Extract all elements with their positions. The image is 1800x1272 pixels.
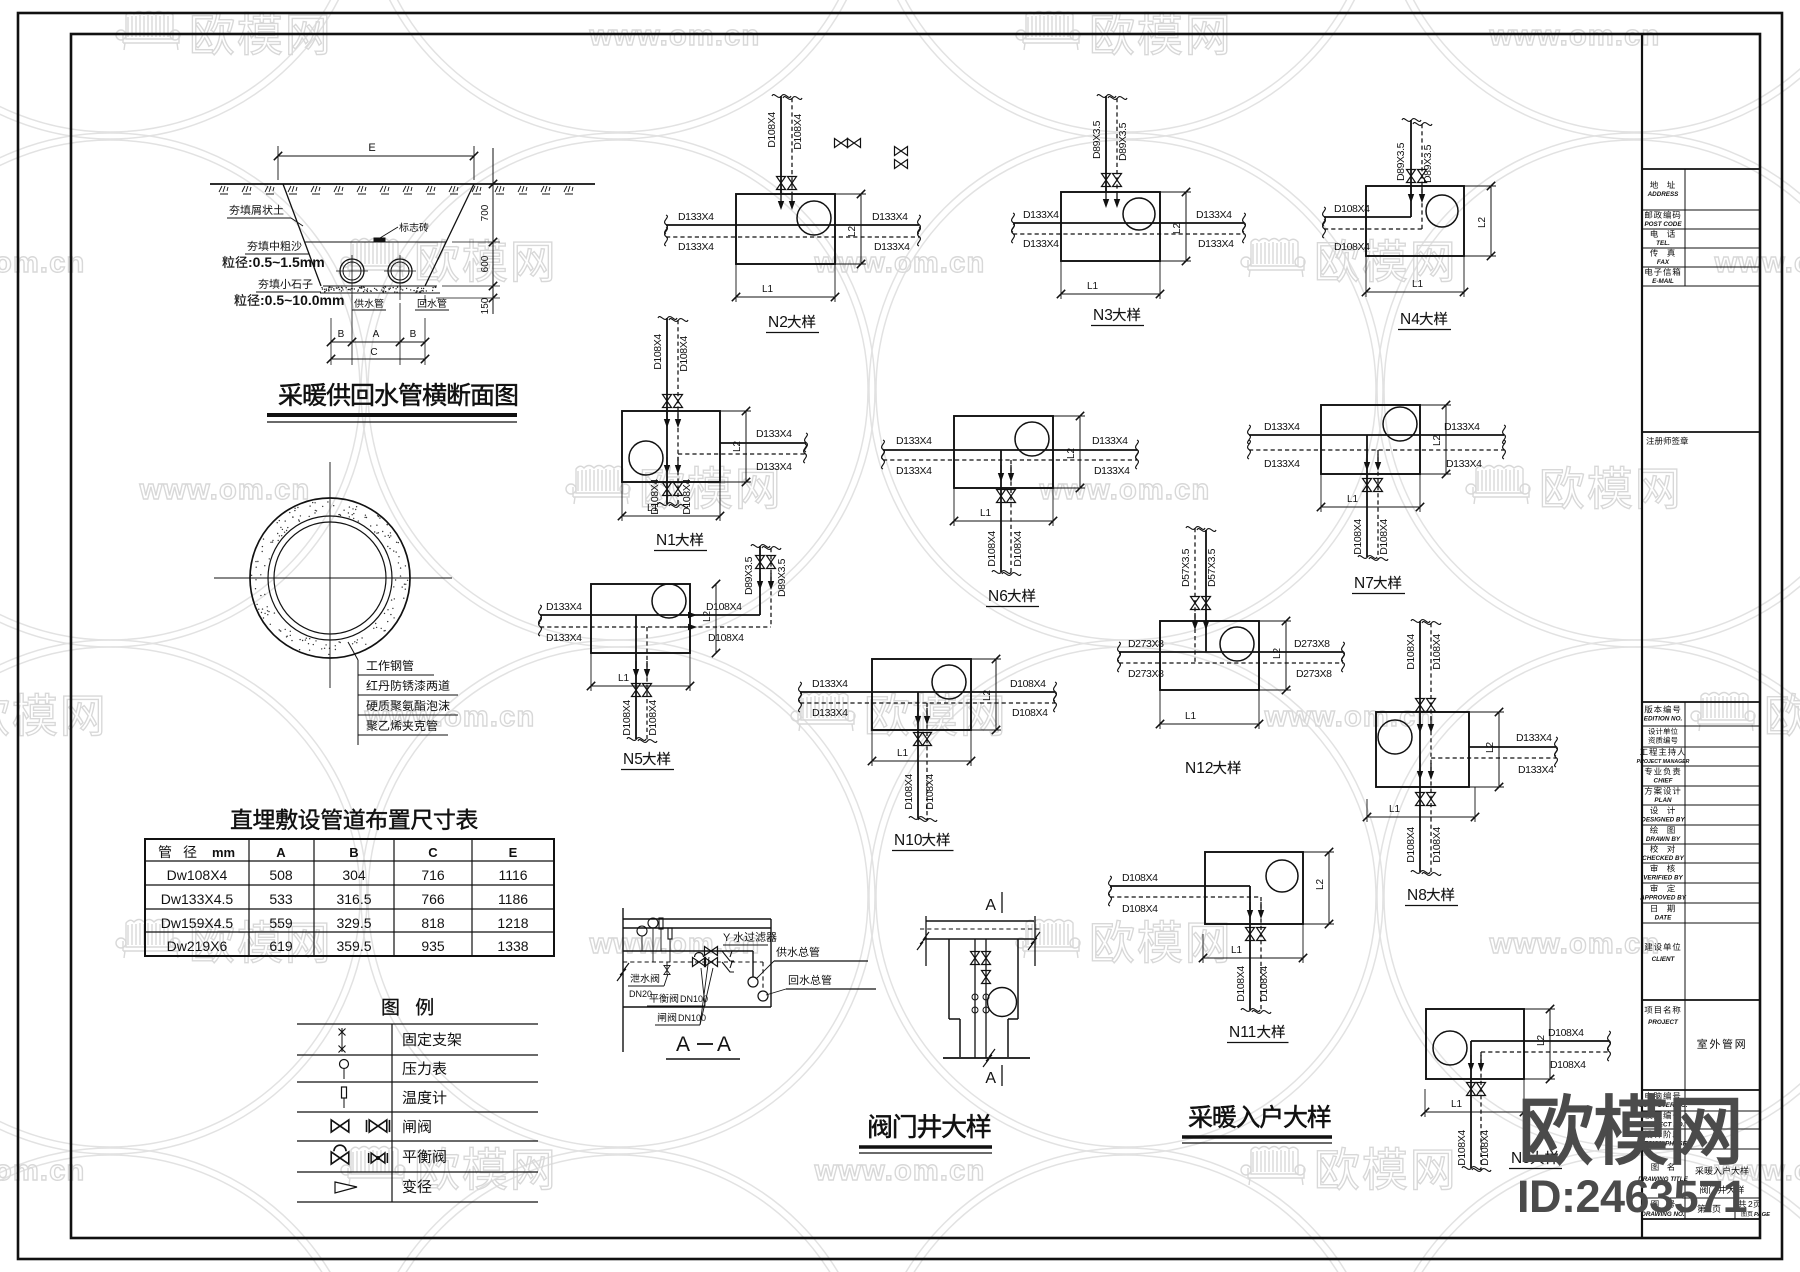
svg-text:www.om.cn: www.om.cn <box>589 928 761 960</box>
N3 return main D133X4 <box>1013 233 1244 235</box>
N8 manhole <box>1378 720 1412 754</box>
N4 valve well <box>1366 186 1464 256</box>
svg-text:POST CODE: POST CODE <box>1644 221 1682 228</box>
svg-text:www.om.cn: www.om.cn <box>589 20 761 52</box>
trench soil label <box>229 205 283 215</box>
svg-text:N10: N10 <box>894 832 923 849</box>
svg-text:818: 818 <box>421 915 445 931</box>
svg-text:N7: N7 <box>1354 575 1374 592</box>
N6 dimension L2 <box>1053 415 1085 417</box>
svg-text:E-MAIL: E-MAIL <box>1652 278 1674 285</box>
svg-text:D273X8: D273X8 <box>1296 668 1332 680</box>
svg-text:600: 600 <box>480 255 491 272</box>
N7 dimension L1 <box>1320 474 1322 512</box>
svg-text:D108X4: D108X4 <box>1431 634 1443 670</box>
N7 dimension L2 <box>1420 404 1451 406</box>
svg-text:N12: N12 <box>1185 760 1213 777</box>
drawing title values <box>1695 1166 1748 1174</box>
N9 dimension L2 <box>1524 1008 1555 1010</box>
legend title <box>383 998 433 1015</box>
AA return pipe <box>623 961 763 963</box>
svg-text:N6: N6 <box>988 588 1008 605</box>
svg-text:L2: L2 <box>702 610 713 622</box>
trench right dimension chain <box>492 148 494 314</box>
svg-text:1338: 1338 <box>497 938 528 954</box>
svg-text:www.om.cn: www.om.cn <box>1489 928 1661 960</box>
N3 flow arrows <box>1103 191 1109 208</box>
N6 dimension L1 <box>953 488 955 526</box>
svg-text:D133X4: D133X4 <box>678 241 714 253</box>
N2 branch supply pipe <box>780 96 782 194</box>
N6 supply main D133X4 <box>883 449 1137 451</box>
AA pressure gauges <box>637 926 647 936</box>
svg-text:D133X4: D133X4 <box>872 211 908 223</box>
trench bottom dimensions BAB <box>330 318 332 365</box>
N2 supply main D133X4 <box>666 224 919 226</box>
svg-text:L1: L1 <box>762 284 774 295</box>
svg-text:www.om.cn: www.om.cn <box>1489 20 1661 52</box>
svg-text:935: 935 <box>421 938 445 954</box>
N8 valve well <box>1376 712 1469 787</box>
N1 valve well <box>622 411 720 482</box>
svg-text:DN20: DN20 <box>629 989 652 999</box>
svg-text:PAGE: PAGE <box>1754 1212 1771 1218</box>
N12 branch supply up <box>1205 530 1207 652</box>
svg-text:D108X4: D108X4 <box>1012 531 1024 567</box>
svg-text:Dw159X4.5: Dw159X4.5 <box>161 915 234 931</box>
N7 branch return pipe down <box>1377 450 1379 559</box>
svg-text:L1: L1 <box>1347 494 1359 505</box>
svg-text:D133X4: D133X4 <box>1264 421 1300 433</box>
svg-text:A: A <box>985 1070 996 1087</box>
svg-text:D108X4: D108X4 <box>1334 241 1370 253</box>
N1 flow arrows bottom <box>664 457 670 474</box>
N8 dimension L1 <box>1366 799 1368 822</box>
svg-text:DESIGNED BY: DESIGNED BY <box>1641 817 1685 824</box>
svg-text:L1: L1 <box>980 508 992 519</box>
N3 branch supply pipe <box>1105 96 1107 192</box>
well plan valves <box>971 952 980 965</box>
svg-text:L1: L1 <box>1389 804 1401 815</box>
title block labels <box>1650 181 1675 189</box>
svg-text:A: A <box>373 329 380 340</box>
N12 dimension L1 <box>1159 690 1161 729</box>
svg-text:2: 2 <box>1748 1199 1753 1209</box>
svg-text:D108X4: D108X4 <box>678 336 690 372</box>
svg-text:D89X3.5: D89X3.5 <box>776 558 788 597</box>
svg-text:A: A <box>676 1033 690 1056</box>
svg-text:D133X4: D133X4 <box>1023 209 1059 221</box>
svg-text:533: 533 <box>269 891 293 907</box>
N6 manhole <box>1015 422 1049 456</box>
N5 down branch supply <box>635 615 637 739</box>
table title <box>231 809 478 830</box>
trench bottom dimension C <box>331 358 425 360</box>
N5 manhole <box>652 584 686 618</box>
N12 supply main D273X8 <box>1119 651 1343 653</box>
svg-text:D108X4: D108X4 <box>986 531 998 567</box>
N4 valves <box>1407 170 1416 183</box>
N5 down valves <box>632 684 641 697</box>
svg-text:DATE: DATE <box>1655 915 1672 922</box>
N12 manhole <box>1220 627 1254 661</box>
N1 dimension L1 <box>621 482 623 521</box>
svg-text:C: C <box>428 845 438 860</box>
trench walls <box>283 184 321 286</box>
N4 dimension L1 <box>1365 256 1367 297</box>
N6 valve well <box>954 416 1053 488</box>
N10 flow arrows <box>915 708 921 725</box>
well plan pipe band <box>926 920 1034 922</box>
svg-text:A: A <box>985 897 996 914</box>
svg-text:L2: L2 <box>1315 878 1326 890</box>
svg-text:B: B <box>410 329 417 340</box>
N9 valve well <box>1426 1009 1524 1079</box>
trench grass marks <box>219 186 228 194</box>
svg-text:DRAWN BY: DRAWN BY <box>1646 836 1681 843</box>
svg-text:L1: L1 <box>897 748 909 759</box>
svg-text:A: A <box>276 845 286 860</box>
svg-text:D133X4: D133X4 <box>1444 421 1480 433</box>
legend balance valve symbol <box>331 1145 349 1164</box>
N11 supply pipe D108X4 <box>1110 885 1250 887</box>
AA well walls <box>770 919 772 1007</box>
svg-text:766: 766 <box>421 891 445 907</box>
svg-text:E: E <box>509 845 518 860</box>
svg-text:D108X4: D108X4 <box>1405 634 1417 670</box>
N5 down branch return <box>646 627 648 741</box>
svg-text:N11: N11 <box>1229 1024 1256 1041</box>
svg-text:L2: L2 <box>1536 1034 1547 1046</box>
svg-text:N4: N4 <box>1400 311 1420 328</box>
svg-text:L1: L1 <box>1451 1099 1463 1110</box>
AA balance valve label <box>650 994 679 1003</box>
svg-text:619: 619 <box>269 938 293 954</box>
svg-text:D133X4: D133X4 <box>756 428 792 440</box>
AA wall break <box>617 963 629 981</box>
N7 flow arrows <box>1364 454 1370 471</box>
svg-text:D133X4: D133X4 <box>896 435 932 447</box>
svg-text:www.om.cn: www.om.cn <box>1714 247 1800 279</box>
N12 branch valves <box>1191 597 1200 610</box>
N1 return main right D133X4 <box>678 453 805 455</box>
pipe section leader <box>348 642 358 660</box>
pipe section crosshair <box>329 462 331 688</box>
N12 flow arrows <box>1192 613 1198 630</box>
N1 branch valves top <box>663 395 672 408</box>
legend table lines <box>297 1023 538 1025</box>
AA drain label <box>630 974 659 983</box>
heating entry title <box>1189 1105 1331 1128</box>
AA flange circles <box>748 977 758 987</box>
AA drain valve <box>666 962 668 974</box>
svg-text:D108X4: D108X4 <box>621 700 633 736</box>
N7 return main D133X4 <box>1249 449 1504 451</box>
well plan break marks <box>917 932 929 950</box>
N12 valve well <box>1160 621 1259 690</box>
N11 dimension L2 <box>1303 851 1334 853</box>
svg-text:www.om.cn: www.om.cn <box>0 247 85 279</box>
svg-text:D108X4: D108X4 <box>792 114 804 150</box>
N9 supply pipe <box>1471 1040 1609 1042</box>
trench dimension E <box>278 155 474 157</box>
svg-text:C: C <box>370 347 377 358</box>
svg-text:D89X3.5: D89X3.5 <box>743 556 755 595</box>
svg-text:1186: 1186 <box>498 891 528 907</box>
trench marker brick <box>374 238 385 242</box>
svg-text:700: 700 <box>480 204 491 221</box>
N10 valve well <box>872 659 971 730</box>
svg-text:D273X8: D273X8 <box>1294 638 1330 650</box>
N6 return main D133X4 <box>883 459 1137 461</box>
N1 dimension L2 <box>720 410 751 412</box>
svg-text:D108X4: D108X4 <box>766 112 778 148</box>
svg-text:D273X8: D273X8 <box>1128 668 1164 680</box>
svg-text:D133X4: D133X4 <box>1446 458 1482 470</box>
svg-text:D108X4: D108X4 <box>1548 1027 1584 1039</box>
N10 dimension L1 <box>871 730 873 766</box>
AA thermometers <box>659 918 663 929</box>
svg-text:APPROVED BY: APPROVED BY <box>1639 895 1687 902</box>
svg-text:Y: Y <box>723 932 731 944</box>
title block column <box>1641 34 1643 1238</box>
N8 valves bottom <box>1416 793 1425 806</box>
N8 arrows bottom <box>1417 763 1423 780</box>
N9 branch valves <box>1467 1083 1476 1096</box>
N10 branch valves <box>914 733 923 746</box>
svg-text:PLAN: PLAN <box>1654 797 1672 804</box>
svg-text:L2: L2 <box>847 225 858 237</box>
svg-text:CHECKED BY: CHECKED BY <box>1642 855 1684 862</box>
svg-text:D108X4: D108X4 <box>924 774 936 810</box>
svg-text:D57X3.5: D57X3.5 <box>1180 548 1192 587</box>
svg-text:559: 559 <box>269 915 293 931</box>
N7 supply main D133X4 <box>1249 434 1504 436</box>
svg-text:A: A <box>717 1033 731 1056</box>
AA gate valves <box>705 947 718 956</box>
AA supply header label <box>776 947 819 957</box>
svg-text::0.5~1.5mm: :0.5~1.5mm <box>248 254 325 270</box>
N12 dimension L2 <box>1259 620 1291 622</box>
return pipe label <box>424 295 426 303</box>
title block project name <box>1697 1039 1744 1049</box>
svg-text:www.om.cn: www.om.cn <box>139 474 311 506</box>
svg-text:N5: N5 <box>623 751 643 768</box>
N11 dimension L1 <box>1202 934 1204 963</box>
svg-text:D133X4: D133X4 <box>546 632 582 644</box>
N9 dimension L1 <box>1424 1089 1426 1117</box>
svg-text:www.om.cn: www.om.cn <box>364 701 536 733</box>
floating gate valves <box>835 139 848 148</box>
well plan side walls <box>925 916 927 966</box>
AA well top slab <box>623 918 771 920</box>
svg-text:D133X4: D133X4 <box>1516 732 1552 744</box>
svg-text:D89X3.5: D89X3.5 <box>1422 144 1434 183</box>
N10 dimension L2 <box>971 658 1001 660</box>
svg-text:D108X4: D108X4 <box>1550 1059 1586 1071</box>
svg-text:D133X4: D133X4 <box>1518 764 1554 776</box>
N10 branch supply down <box>917 692 919 818</box>
legend fixed support symbol <box>341 1028 343 1052</box>
N6 branch supply pipe down <box>1000 450 1002 572</box>
svg-text:L2: L2 <box>1477 216 1488 228</box>
N3 valve well <box>1061 192 1160 261</box>
svg-text:D108X4: D108X4 <box>1122 872 1158 884</box>
svg-text:D108X4: D108X4 <box>1378 519 1390 555</box>
svg-text:1116: 1116 <box>498 867 527 883</box>
svg-text:D108X4: D108X4 <box>1258 966 1270 1002</box>
section marker A bottom <box>1001 1065 1003 1086</box>
N2 dimension L1 <box>735 264 737 302</box>
N3 branch valves <box>1102 174 1111 187</box>
N2 return main D133X4 <box>666 236 919 238</box>
svg-text:D133X4: D133X4 <box>1094 465 1130 477</box>
table frame <box>145 839 554 956</box>
N2 branch return pipe <box>791 98 793 194</box>
footer watermark logo <box>1524 1094 1738 1164</box>
svg-text:304: 304 <box>342 867 366 883</box>
valve well title <box>869 1114 990 1138</box>
N2 branch valves <box>777 177 786 190</box>
watermark tiles <box>116 12 180 51</box>
svg-text:D108X4: D108X4 <box>1479 1130 1491 1166</box>
svg-text:D133X4: D133X4 <box>1023 238 1059 250</box>
svg-text:L2: L2 <box>732 440 743 452</box>
N11 valve well <box>1205 852 1303 924</box>
N3 manhole <box>1123 198 1155 230</box>
N7 manhole <box>1383 407 1417 441</box>
trench supply pipe circle <box>340 259 364 283</box>
svg-text:PROJECT MANAGER: PROJECT MANAGER <box>1637 759 1690 765</box>
svg-text:D133X4: D133X4 <box>874 241 910 253</box>
pipe section insulation circles <box>268 516 392 640</box>
N4 return pipe D108X4 <box>1324 228 1422 230</box>
svg-text:D133X4: D133X4 <box>1092 435 1128 447</box>
svg-text:L1: L1 <box>1231 945 1243 956</box>
supply pipe label <box>351 295 353 303</box>
N11 return pipe D108X4 <box>1110 896 1261 898</box>
svg-text:150: 150 <box>480 297 491 314</box>
svg-text:Dw219X6: Dw219X6 <box>167 938 228 954</box>
svg-text:L1: L1 <box>1412 279 1424 290</box>
trench gravel bedding <box>323 285 437 287</box>
pipe section stipple ring <box>335 649 336 650</box>
svg-text:mm: mm <box>212 845 235 860</box>
N3 dimension L1 <box>1060 261 1062 299</box>
N2 dimension L2 <box>835 193 866 195</box>
N5 riser arrows <box>757 573 763 590</box>
N12 branch return up <box>1194 528 1196 663</box>
N11 branch valves <box>1246 928 1255 941</box>
svg-text:D133X4: D133X4 <box>896 465 932 477</box>
trench return pipe circle <box>388 259 412 283</box>
trench sand line <box>304 241 446 243</box>
N2 valve well <box>736 194 835 264</box>
legend pressure gauge symbol <box>340 1060 349 1069</box>
svg-text:L1: L1 <box>618 673 630 684</box>
trench section title <box>279 383 517 406</box>
svg-text:D108X4: D108X4 <box>1352 519 1364 555</box>
svg-text:D108X4: D108X4 <box>652 334 664 370</box>
svg-text:VERIFIED BY: VERIFIED BY <box>1643 875 1683 882</box>
svg-text:D133X4: D133X4 <box>1264 458 1300 470</box>
svg-text:D133X4: D133X4 <box>546 601 582 613</box>
N1 flow arrows top <box>664 411 670 428</box>
svg-text:EDITION NO.: EDITION NO. <box>1644 716 1683 723</box>
N1 supply main right D133X4 <box>720 442 806 444</box>
N4 supply pipe D108X4 <box>1324 216 1411 218</box>
svg-text:D273X8: D273X8 <box>1128 638 1164 650</box>
svg-text:Dw133X4.5: Dw133X4.5 <box>161 891 234 907</box>
svg-text:L1: L1 <box>1185 711 1197 722</box>
svg-text:D133X4: D133X4 <box>1198 238 1234 250</box>
svg-text:1218: 1218 <box>497 915 528 931</box>
svg-text:D108X4: D108X4 <box>903 774 915 810</box>
svg-text:D133X4: D133X4 <box>1196 209 1232 221</box>
AA supply pipe <box>623 950 753 952</box>
N8 dimension L2 <box>1469 711 1504 713</box>
N5 return pipe <box>540 626 771 628</box>
svg-text:D108X4: D108X4 <box>1431 827 1443 863</box>
svg-text:L2: L2 <box>1485 741 1496 753</box>
section marker A top <box>1001 892 1003 913</box>
svg-text:TEL.: TEL. <box>1656 240 1670 247</box>
N3 branch return pipe <box>1116 98 1118 192</box>
N6 branch return pipe down <box>1010 460 1012 574</box>
table header row <box>159 845 172 858</box>
trench sand label <box>247 241 301 251</box>
N8 branch supply through <box>1419 621 1421 872</box>
svg-text:B: B <box>349 845 358 860</box>
svg-text:L1: L1 <box>647 503 659 514</box>
svg-text:ADDRESS: ADDRESS <box>1647 191 1680 198</box>
AA strainers <box>722 951 734 961</box>
trench ground line <box>210 183 595 185</box>
svg-text:D89X3.5: D89X3.5 <box>1117 122 1129 161</box>
N9 manhole <box>1433 1031 1467 1065</box>
svg-text:D133X4: D133X4 <box>812 707 848 719</box>
N10 return main <box>800 702 1055 704</box>
N5 down arrows <box>633 661 639 678</box>
legend reducer symbol <box>335 1182 357 1193</box>
N4 manhole <box>1426 195 1458 227</box>
N4 flow arrows <box>1408 186 1414 203</box>
N5 supply pipe D133X4 to D108X4 <box>540 614 760 616</box>
svg-text:D108X4: D108X4 <box>681 479 693 515</box>
svg-text:D89X3.5: D89X3.5 <box>1395 142 1407 181</box>
svg-text:D108X4: D108X4 <box>1405 827 1417 863</box>
svg-text:L2: L2 <box>1272 647 1283 659</box>
svg-text:www.om.cn: www.om.cn <box>0 1155 85 1187</box>
svg-text:508: 508 <box>269 867 293 883</box>
N7 branch supply pipe down <box>1366 435 1368 557</box>
N7 valve well <box>1321 405 1420 474</box>
pipe section outer jacket circle <box>250 498 410 658</box>
svg-text:L2: L2 <box>1432 434 1443 446</box>
N8 valves top <box>1416 699 1425 712</box>
N6 branch valves <box>997 490 1006 503</box>
svg-text:PROJECT: PROJECT <box>1648 1019 1679 1026</box>
N9 flow arrows <box>1468 1055 1474 1072</box>
svg-text:D108X4: D108X4 <box>1122 903 1158 915</box>
AA left wall <box>622 908 624 1052</box>
N7 branch valves <box>1363 479 1372 492</box>
svg-text:ID:2463571: ID:2463571 <box>1517 1171 1747 1222</box>
svg-text:www.om.cn: www.om.cn <box>814 1155 986 1187</box>
svg-text:N1: N1 <box>656 532 676 549</box>
N10 branch return down <box>926 703 928 820</box>
N9 return pipe <box>1481 1051 1609 1053</box>
